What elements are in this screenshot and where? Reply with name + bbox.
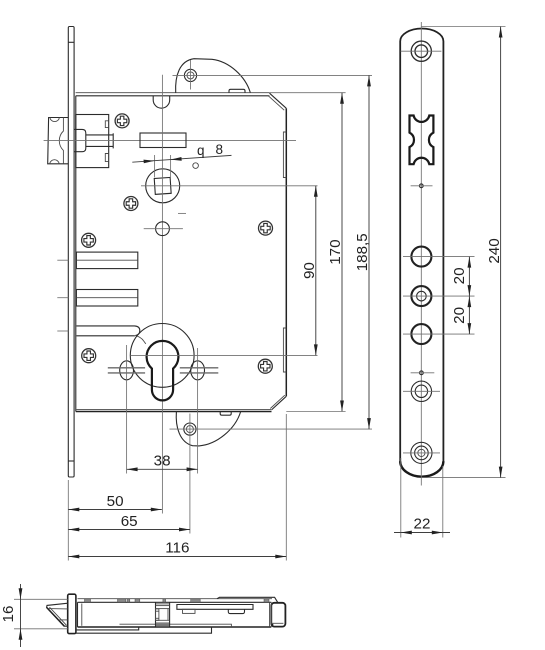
dimension 188,5 line bbox=[368, 75, 370, 429]
svg-text:q: q bbox=[197, 143, 205, 158]
dim 65 arrow right bbox=[179, 528, 190, 532]
cover strip (bottom view) bbox=[177, 605, 253, 610]
dim 90 arrow top bbox=[314, 186, 318, 197]
plate pin hole lower bbox=[420, 371, 424, 375]
screw F right edge lower bbox=[258, 359, 272, 373]
cylinder arm centerline tick bbox=[57, 330, 68, 332]
small pin hole bbox=[193, 163, 199, 169]
top lug hole inner bbox=[187, 72, 194, 79]
dimension 116 bbox=[68, 556, 286, 558]
dim 20 upper arrow top bbox=[468, 257, 472, 268]
latch bolt wedge (bottom view) bbox=[47, 603, 68, 626]
follower circle bbox=[146, 169, 180, 203]
plate hole D outer bbox=[411, 381, 431, 401]
dim 16 arrow bottom bbox=[19, 629, 23, 640]
svg-text:240: 240 bbox=[486, 238, 503, 263]
plate hole A bbox=[411, 247, 431, 267]
bottom lug centerline horizontal / ext 188,5 bbox=[170, 428, 373, 430]
small tab below bottom edge bbox=[220, 412, 231, 416]
dimension 240 line bbox=[500, 27, 502, 478]
dim 38 arrow right bbox=[187, 467, 198, 471]
dim 65 arrow left bbox=[68, 528, 79, 532]
hidden edge tick bbox=[178, 212, 186, 214]
screw D right edge upper bbox=[259, 221, 273, 235]
plate hole E mid bbox=[415, 446, 429, 460]
plate pin hole upper tick bbox=[411, 185, 433, 187]
plate top hole tick bbox=[401, 50, 442, 52]
extension line 170 top bbox=[269, 92, 345, 94]
plate pin hole lower tick bbox=[411, 372, 435, 374]
plate hole C bbox=[411, 324, 431, 344]
svg-text:90: 90 bbox=[301, 262, 318, 279]
lower housing step 1 bbox=[76, 627, 139, 630]
svg-text:170: 170 bbox=[327, 239, 344, 264]
plate hole E tick bbox=[403, 452, 440, 454]
svg-text:65: 65 bbox=[121, 513, 138, 530]
svg-text:50: 50 bbox=[107, 493, 124, 510]
extension 22 right bbox=[442, 466, 444, 538]
end plate verticals bbox=[270, 602, 272, 627]
M5 left ticks bbox=[108, 368, 145, 373]
dimension 20 lower bbox=[468, 296, 470, 334]
dimension 20 upper bbox=[468, 257, 470, 297]
spring bar 2 bbox=[76, 290, 137, 307]
dim 20 lower arrow top bbox=[468, 296, 472, 307]
bottom lug hole inner bbox=[186, 426, 193, 433]
dim 188,5 arrow top bbox=[367, 75, 371, 86]
lock case top cover line bbox=[76, 92, 270, 94]
follower centerline horizontal / ext 90 bbox=[141, 185, 318, 187]
lock case left edge bbox=[75, 96, 77, 412]
spring bar 2 centerline tick bbox=[57, 297, 68, 299]
top-right chamfer bbox=[268, 93, 286, 110]
plate vertical centerline bbox=[420, 22, 422, 486]
dim 116 arrow left bbox=[68, 555, 79, 559]
latch bolt head bbox=[48, 118, 69, 164]
end cap inner line bbox=[271, 622, 283, 624]
dim 20 lower arrow bottom bbox=[468, 323, 472, 334]
extension line right edge for 116 bbox=[285, 414, 287, 561]
dimension 90 line bbox=[315, 186, 317, 356]
case left edge (bottom view) bbox=[77, 602, 79, 627]
latch block notch upper bbox=[105, 121, 108, 128]
end cap bottom tab bbox=[271, 624, 273, 627]
face plate outline (right view) bbox=[400, 29, 443, 477]
follower cutout (bone shape) bbox=[410, 116, 434, 165]
q8 arrow right bbox=[171, 157, 182, 161]
M5 right ticks bbox=[180, 368, 219, 373]
plate hole B outer bbox=[411, 286, 431, 306]
latch centerline bbox=[44, 139, 296, 141]
bottom mounting lug bbox=[176, 412, 240, 446]
dim 38 arrow left bbox=[127, 467, 138, 471]
dimension 65 bbox=[68, 529, 190, 531]
top lug centerline horizontal / ext 188,5 bbox=[173, 74, 373, 76]
bottom lug hole outer bbox=[184, 423, 196, 435]
plate hole E outer bbox=[411, 442, 432, 463]
dimension 16 line bbox=[20, 584, 22, 647]
bottom lug centerline vertical / ext 65 bbox=[189, 414, 191, 534]
plate hole D tick bbox=[403, 390, 440, 392]
dimension 170 line bbox=[341, 93, 343, 412]
M5 right extension line / 38 bbox=[197, 348, 199, 474]
plate pin hole upper bbox=[419, 184, 423, 188]
right edge inner tab lower bbox=[283, 328, 286, 372]
lock case bottom edge bbox=[76, 411, 272, 413]
extension 240 top bbox=[421, 26, 505, 28]
follower square q8 bbox=[154, 177, 171, 194]
main vertical centerline bbox=[161, 75, 163, 514]
dim 16 arrow top bbox=[19, 588, 23, 599]
follower slot plate bbox=[140, 133, 186, 148]
euro profile keyhole bbox=[147, 341, 179, 401]
small tab above top edge bbox=[229, 89, 245, 92]
screw C left edge upper bbox=[82, 233, 96, 247]
latch stem bbox=[86, 133, 113, 148]
dim 20 upper arrow bottom bbox=[468, 285, 472, 296]
M5 hole left bbox=[120, 361, 134, 380]
screw E left edge lower bbox=[82, 349, 96, 363]
case top edge (bottom view) bbox=[78, 601, 272, 603]
q8 arrow left bbox=[144, 160, 155, 164]
case top cover line (bottom view) bbox=[78, 598, 273, 600]
right edge inner tab upper bbox=[283, 132, 286, 178]
screw A top-left bbox=[115, 114, 129, 128]
cylinder arm bar bbox=[76, 326, 145, 344]
plate hole E inner bbox=[418, 449, 425, 456]
spring bar 1 bbox=[76, 252, 137, 269]
plate hole C tick / ext 20 bbox=[403, 333, 475, 335]
top mounting lug bbox=[176, 59, 251, 93]
dim 116 arrow right bbox=[275, 555, 286, 559]
latch guide block bbox=[76, 115, 109, 168]
dim 22 arrow left bbox=[401, 531, 412, 535]
extension 240 bottom bbox=[421, 477, 505, 479]
latch block notch lower bbox=[105, 154, 108, 162]
M5 left extension line / 38 bbox=[126, 345, 128, 474]
lock case bottom inner line bbox=[76, 409, 271, 411]
dim 240 arrow bottom bbox=[499, 467, 503, 478]
dim 90 arrow bottom bbox=[314, 344, 318, 355]
svg-text:20: 20 bbox=[451, 307, 468, 324]
extension 16 top bbox=[14, 598, 68, 600]
lock case top edge bbox=[76, 95, 270, 97]
dim 170 arrow bottom bbox=[340, 401, 344, 412]
extension line 170 bottom bbox=[286, 411, 345, 413]
plate top screw hole outer bbox=[411, 41, 431, 61]
plate hole A tick / ext 20 bbox=[403, 256, 475, 258]
inner bottom line bbox=[120, 624, 232, 627]
plate hole B tick / ext 20 bbox=[403, 295, 475, 297]
svg-text:16: 16 bbox=[0, 606, 17, 623]
spring bar 1 centerline tick bbox=[57, 259, 68, 261]
dim 240 arrow top bbox=[499, 27, 503, 38]
follower hub block (bottom view) bbox=[156, 602, 170, 627]
svg-text:116: 116 bbox=[165, 540, 189, 557]
dim 188,5 arrow bottom bbox=[367, 418, 371, 429]
dim 50 arrow right bbox=[151, 508, 162, 512]
strip tab bbox=[183, 609, 196, 613]
extension 16 bottom bbox=[14, 628, 68, 630]
dimension 22 line bbox=[394, 532, 450, 534]
guide hole below follower bbox=[156, 222, 170, 236]
latch collar bbox=[74, 129, 86, 151]
screw B below follower-left bbox=[124, 197, 138, 211]
svg-text:20: 20 bbox=[451, 267, 468, 284]
svg-text:8: 8 bbox=[216, 142, 224, 157]
dim 22 arrow right bbox=[432, 531, 443, 535]
q8 extension lines bbox=[155, 155, 171, 177]
extension 22 left bbox=[400, 458, 402, 538]
plate hole D inner bbox=[415, 385, 427, 397]
M5 hole right bbox=[191, 361, 205, 380]
bottom-right chamfer bbox=[270, 395, 286, 410]
svg-text:188,5: 188,5 bbox=[354, 233, 371, 271]
U-notch in top edge bbox=[153, 96, 170, 108]
plate hole B inner bbox=[417, 291, 427, 301]
svg-text:38: 38 bbox=[154, 452, 171, 469]
cylinder ring bbox=[130, 324, 194, 388]
dim 50 arrow left bbox=[68, 508, 79, 512]
lower housing step 2 bbox=[76, 627, 212, 633]
cover bump (bottom view) bbox=[217, 597, 278, 602]
dimension 50 bbox=[68, 509, 162, 511]
svg-text:22: 22 bbox=[414, 516, 431, 533]
cylinder centerline horizontal / ext 90 bbox=[130, 354, 317, 356]
top lug centerline vertical bbox=[190, 60, 192, 90]
strip rounded tab bbox=[228, 609, 244, 613]
guide hole tick bbox=[144, 228, 183, 230]
plate bottom thick arc bbox=[400, 461, 443, 476]
faceplate (front view) bbox=[68, 27, 74, 478]
seam ticks bbox=[85, 599, 270, 602]
faceplate (bottom view) bbox=[68, 594, 76, 633]
case inner left guide bbox=[81, 604, 83, 626]
dim 170 arrow top bbox=[340, 93, 344, 104]
case end cap (bottom view) bbox=[271, 603, 285, 627]
plate top screw hole inner bbox=[415, 45, 428, 58]
extension line left (faceplate) for 50/65/116 bbox=[67, 480, 69, 561]
top lug hole outer bbox=[184, 69, 196, 81]
case bottom edge (bottom view) bbox=[78, 626, 272, 628]
dimension 38 bbox=[127, 468, 198, 470]
q8 leader line bbox=[132, 155, 231, 162]
lock case right edge bbox=[285, 108, 287, 396]
